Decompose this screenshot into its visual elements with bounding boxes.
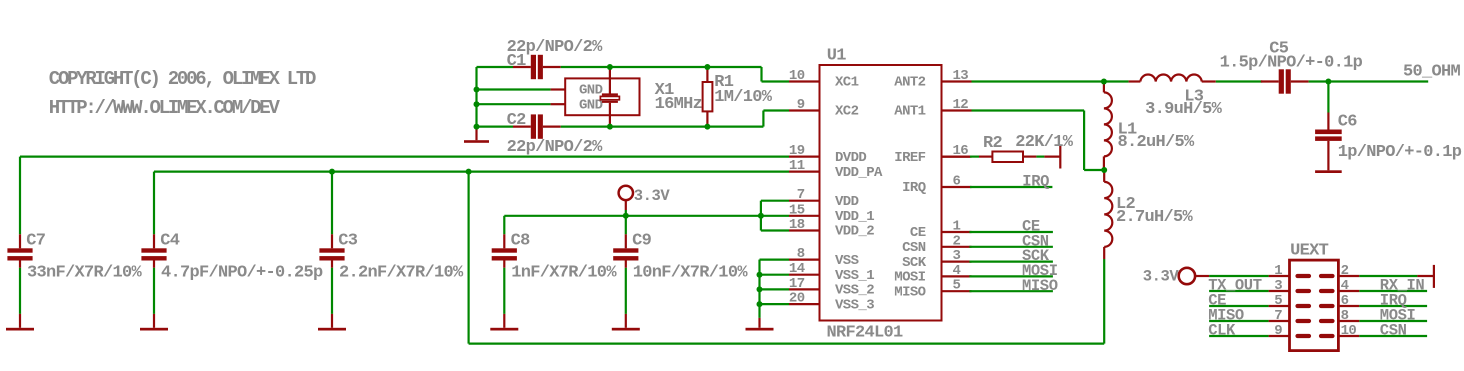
svg-text:VSS_2: VSS_2 <box>835 283 874 299</box>
svg-text:C4: C4 <box>160 232 180 251</box>
junction R1 bottom <box>704 124 710 130</box>
wire bus to VDD pin 7 <box>760 201 762 216</box>
junction C6 node <box>1325 79 1331 85</box>
crystal X1 case box <box>565 78 639 115</box>
terminal stub at UEXT pin 2 <box>1433 265 1435 288</box>
ground under VSS <box>758 318 760 328</box>
pin 19 DVDD stub <box>789 156 820 158</box>
svg-text:1M/10%: 1M/10% <box>714 88 773 107</box>
wire bus to VDD_2 pin 18 <box>760 216 762 231</box>
wire R1 bottom to corner <box>707 125 763 127</box>
wire C1 row left <box>477 66 514 68</box>
pin 4 stub <box>1338 290 1359 292</box>
svg-text:XC1: XC1 <box>835 75 859 91</box>
wire pin 2 to gnd stub <box>1359 275 1417 277</box>
svg-text:8.2uH/5%: 8.2uH/5% <box>1118 133 1196 152</box>
junction R1 top <box>704 64 710 70</box>
crystal X1 element <box>609 67 611 94</box>
svg-text:3: 3 <box>1274 278 1282 294</box>
svg-text:2.7uH/5%: 2.7uH/5% <box>1116 208 1194 227</box>
pin 2 stub <box>1338 275 1359 277</box>
wire CSN net <box>1359 335 1427 337</box>
pin 18 VDD_2 stub <box>789 229 820 231</box>
wire crystal case gnd row 1 <box>477 88 551 90</box>
svg-text:16MHz: 16MHz <box>655 95 703 114</box>
resistor R1 <box>706 67 708 82</box>
wire ANT1 down <box>1083 111 1085 171</box>
svg-text:C6: C6 <box>1338 112 1358 131</box>
svg-text:C2: C2 <box>507 111 527 130</box>
wire VDD_PA feed bottom bus <box>469 343 1105 345</box>
junction VSS_1 <box>757 272 763 278</box>
pin 13 ANT2 stub <box>942 80 972 82</box>
wire ANT2 to L1 node <box>972 80 1104 82</box>
wire CE net <box>1209 305 1269 307</box>
pin 9 XC2 stub <box>789 109 820 111</box>
ground under C3 <box>331 314 333 328</box>
wire DVDD rail <box>20 156 789 158</box>
pin 7 stub <box>1269 320 1290 322</box>
wire R1 top to corner <box>707 66 761 68</box>
wire to 50_OHM <box>1328 80 1428 82</box>
svg-text:HTTP://WWW.OLIMEX.COM/DEV: HTTP://WWW.OLIMEX.COM/DEV <box>49 97 281 119</box>
svg-text:19: 19 <box>789 143 805 159</box>
wire MOSI net <box>1359 320 1427 322</box>
wire corner down to XC1 row <box>760 67 762 82</box>
svg-text:20: 20 <box>789 291 805 307</box>
pin 20 VSS_3 stub <box>789 303 820 305</box>
wire CE net <box>969 231 1053 233</box>
junction VSS_2 <box>757 286 763 292</box>
svg-text:3.9uH/5%: 3.9uH/5% <box>1145 100 1223 119</box>
junction crystal bottom node <box>607 124 613 130</box>
svg-text:C3: C3 <box>338 232 358 251</box>
ground under C6 <box>1327 141 1329 170</box>
svg-text:1: 1 <box>953 219 961 235</box>
svg-text:MISO: MISO <box>1022 277 1058 295</box>
svg-text:CSN: CSN <box>902 240 926 256</box>
inductor L1 <box>1103 82 1105 93</box>
svg-text:2.2nF/X7R/10%: 2.2nF/X7R/10% <box>339 263 464 282</box>
capacitor C8 body <box>503 234 505 248</box>
wire CLK net <box>1209 335 1269 337</box>
svg-text:3.3V: 3.3V <box>634 187 671 205</box>
wire C2 row left <box>477 125 514 127</box>
svg-text:8: 8 <box>797 246 805 262</box>
svg-text:3: 3 <box>953 248 961 264</box>
capacitor C1 <box>513 66 531 68</box>
junction gnd row 1 <box>474 87 480 93</box>
wire VSS_2 pin 17 <box>760 288 790 290</box>
wire crystal bottom to R1 bottom <box>610 125 708 127</box>
svg-text:10: 10 <box>1341 323 1357 339</box>
svg-text:CE: CE <box>910 225 926 241</box>
pin 4 MOSI stub <box>942 275 972 277</box>
pin 8 VSS stub <box>789 259 820 261</box>
wire 3.3V to bus <box>625 210 627 216</box>
svg-text:11: 11 <box>789 158 805 174</box>
wire VDD_PA rail drop to C4 <box>153 172 155 235</box>
ground under C4 <box>153 314 155 328</box>
wire C9 bottom <box>625 268 627 314</box>
pin 16 IREF stub <box>942 156 972 158</box>
terminal stub right of R2 <box>1059 146 1061 169</box>
wire VDD bus <box>504 215 761 217</box>
pin 2 CSN stub <box>942 246 972 248</box>
connector UEXT pin 9 bar <box>1298 334 1310 338</box>
svg-text:5: 5 <box>1274 293 1282 309</box>
svg-text:4: 4 <box>953 263 961 279</box>
svg-text:18: 18 <box>789 217 805 233</box>
svg-text:MOSI: MOSI <box>894 270 925 286</box>
svg-text:R2: R2 <box>983 134 1003 153</box>
wire C9 drop <box>625 216 627 235</box>
pin 5 MISO stub <box>942 290 972 292</box>
svg-text:50_OHM: 50_OHM <box>1403 63 1461 82</box>
wire C1 to crystal top <box>561 66 610 68</box>
crystal X1 gnd pin 2 stub <box>551 103 566 105</box>
pin 3 SCK stub <box>942 261 972 263</box>
wire 3.3V to pin 1 <box>1195 275 1209 277</box>
pin 10 XC1 stub <box>789 80 820 82</box>
svg-text:UEXT: UEXT <box>1290 242 1329 261</box>
wire VDD_PA feed down <box>468 172 470 344</box>
wire C3 drop <box>331 172 333 235</box>
junction L1 L2 node <box>1101 167 1107 173</box>
junction VDD bus at pin VDD_1 <box>758 213 764 219</box>
wire SCK net <box>969 261 1053 263</box>
svg-text:VDD_2: VDD_2 <box>835 224 874 240</box>
wire L3 to C5 <box>1216 80 1262 82</box>
svg-text:GND: GND <box>579 97 603 113</box>
svg-text:CSN: CSN <box>1380 322 1407 340</box>
wire bus to VDD_1 pin 15 <box>761 215 789 217</box>
wire ANT1 east <box>972 109 1085 111</box>
pin 3 stub <box>1269 290 1290 292</box>
ground symbol left of C2 <box>475 127 477 141</box>
wire C6 top <box>1327 82 1329 113</box>
junction C2 left / ground tap <box>474 124 480 130</box>
pin 7 VDD stub <box>789 200 820 202</box>
svg-text:7: 7 <box>1274 308 1282 324</box>
connector UEXT pin 10 bar <box>1321 334 1333 338</box>
wire C2 to crystal bottom <box>561 125 610 127</box>
capacitor C7 body <box>19 234 21 248</box>
svg-text:1.5p/NPO/+-0.1p: 1.5p/NPO/+-0.1p <box>1220 54 1363 73</box>
svg-text:9: 9 <box>797 97 805 113</box>
wire crystal top to R1 top <box>610 66 708 68</box>
wire gnd vertical left of crystal <box>475 67 477 127</box>
pin 6 stub <box>1338 305 1359 307</box>
capacitor C6 <box>1327 113 1329 130</box>
pin 6 IRQ stub <box>942 186 972 188</box>
svg-text:ANT2: ANT2 <box>894 75 925 91</box>
svg-text:6: 6 <box>953 174 961 190</box>
inductor L2 <box>1103 170 1105 182</box>
wire C4 bottom <box>153 268 155 314</box>
svg-text:IRQ: IRQ <box>1022 173 1049 191</box>
capacitor C2 <box>513 125 531 127</box>
ground under C7 <box>19 314 21 328</box>
wire ANT2 node to L3 <box>1104 80 1129 82</box>
supply 3.3V at UEXT <box>1179 268 1195 284</box>
wire VSS_1 pin 14 <box>760 274 790 276</box>
svg-text:IRQ: IRQ <box>902 180 926 196</box>
inductor L3 <box>1129 80 1141 82</box>
svg-text:VDD: VDD <box>835 194 859 210</box>
pin 1 stub <box>1269 275 1290 277</box>
junction crystal top node <box>607 64 613 70</box>
svg-text:10nF/X7R/10%: 10nF/X7R/10% <box>633 263 749 282</box>
svg-text:5: 5 <box>953 278 961 294</box>
wire IRQ net <box>1359 305 1427 307</box>
wire TX_OUT net <box>1209 290 1269 292</box>
wire to XC1 pin <box>762 80 790 82</box>
supply 3.3V above C9 <box>619 186 633 200</box>
svg-text:CLK: CLK <box>1208 322 1236 340</box>
capacitor C9 body <box>625 234 627 248</box>
wire DVDD rail drop to C7 <box>19 157 21 235</box>
pin 14 VSS_1 stub <box>789 274 820 276</box>
junction VSS_3 <box>757 301 763 307</box>
wire MOSI net <box>969 275 1053 277</box>
svg-text:U1: U1 <box>827 47 847 66</box>
svg-text:2: 2 <box>953 233 961 249</box>
connector UEXT pin 4 bar <box>1321 289 1333 293</box>
capacitor C5 <box>1261 80 1279 82</box>
svg-text:8: 8 <box>1341 308 1349 324</box>
junction ANT2 L1 <box>1101 79 1107 85</box>
connector UEXT pin 1 bar <box>1298 274 1310 278</box>
svg-text:VSS_3: VSS_3 <box>835 297 874 313</box>
svg-text:XC2: XC2 <box>835 104 859 120</box>
svg-text:10: 10 <box>789 68 805 84</box>
pin 12 ANT1 stub <box>942 109 972 111</box>
svg-text:3.3V: 3.3V <box>1143 268 1180 286</box>
connector UEXT pin 8 bar <box>1321 319 1333 323</box>
svg-text:4.7pF/NPO/+-0.25p: 4.7pF/NPO/+-0.25p <box>161 263 323 282</box>
crystal X1 gnd pin 1 stub <box>551 88 566 90</box>
connector UEXT body <box>1290 260 1339 351</box>
junction gnd row 2 <box>474 101 480 107</box>
wire VSS vertical <box>758 260 760 318</box>
svg-text:17: 17 <box>789 276 805 292</box>
wire crystal case gnd row 2 <box>477 103 551 105</box>
wire C3 bottom <box>331 268 333 314</box>
ground under C9 <box>625 314 627 328</box>
wire IRQ net <box>970 186 1052 188</box>
wire C8 bottom <box>503 268 505 314</box>
svg-text:ANT1: ANT1 <box>894 104 925 120</box>
svg-text:VSS_1: VSS_1 <box>835 268 874 284</box>
pin 15 VDD_1 stub <box>789 215 820 217</box>
connector UEXT pin 6 bar <box>1321 304 1333 308</box>
resistor R2 <box>942 156 971 158</box>
svg-text:VDD_1: VDD_1 <box>835 209 874 225</box>
connector UEXT pin 3 bar <box>1298 289 1310 293</box>
svg-text:C8: C8 <box>511 232 531 251</box>
svg-text:33nF/X7R/10%: 33nF/X7R/10% <box>27 263 143 282</box>
svg-text:NRF24L01: NRF24L01 <box>827 324 904 343</box>
wire RX_IN net <box>1359 290 1427 292</box>
wire C7 bottom <box>19 268 21 314</box>
svg-text:C9: C9 <box>632 232 652 251</box>
ground under C8 <box>503 314 505 328</box>
svg-text:1: 1 <box>1274 263 1282 279</box>
wire VSS pin 8 <box>760 259 790 261</box>
svg-text:15: 15 <box>789 202 805 218</box>
svg-text:C7: C7 <box>26 232 46 251</box>
svg-text:9: 9 <box>1274 323 1282 339</box>
svg-text:SCK: SCK <box>902 255 927 271</box>
junction VDD_PA to antenna feed <box>466 169 472 175</box>
wire VDD_PA rail <box>154 171 789 173</box>
svg-text:MISO: MISO <box>894 284 925 300</box>
connector UEXT pin 2 bar <box>1321 274 1333 278</box>
svg-text:14: 14 <box>789 261 805 277</box>
pin 8 stub <box>1338 320 1359 322</box>
svg-text:13: 13 <box>953 68 969 84</box>
svg-text:7: 7 <box>797 187 805 203</box>
pin 10 stub <box>1338 335 1359 337</box>
pin 17 VSS_2 stub <box>789 288 820 290</box>
capacitor C4 body <box>153 234 155 248</box>
svg-text:22p/NPO/2%: 22p/NPO/2% <box>507 138 604 157</box>
svg-text:4: 4 <box>1341 278 1349 294</box>
wire CSN net <box>969 246 1053 248</box>
svg-text:GND: GND <box>579 83 603 99</box>
junction C3 on VDD_PA rail <box>329 169 335 175</box>
svg-text:1nF/X7R/10%: 1nF/X7R/10% <box>511 263 617 282</box>
pin 5 stub <box>1269 305 1290 307</box>
pin 11 VDD_PA stub <box>789 171 820 173</box>
svg-text:VSS: VSS <box>835 253 859 269</box>
wire VSS_3 pin 20 <box>760 303 790 305</box>
connector UEXT pin 5 bar <box>1298 304 1310 308</box>
wire MISO net <box>969 290 1053 292</box>
svg-text:VDD_PA: VDD_PA <box>835 165 883 181</box>
svg-text:1p/NPO/+-0.1p: 1p/NPO/+-0.1p <box>1338 143 1462 162</box>
svg-text:COPYRIGHT(C) 2006, OLIMEX LTD: COPYRIGHT(C) 2006, OLIMEX LTD <box>49 68 316 90</box>
capacitor C3 body <box>331 234 333 248</box>
svg-text:22p/NPO/2%: 22p/NPO/2% <box>507 38 604 57</box>
wire MISO net <box>1209 320 1269 322</box>
wire bottom bus up to L2 <box>1103 259 1105 344</box>
wire to XC2 pin <box>763 109 789 111</box>
svg-text:12: 12 <box>953 97 969 113</box>
wire corner up to XC2 row <box>762 111 764 127</box>
IC U1 NRF24L01 body <box>820 65 942 321</box>
svg-text:IREF: IREF <box>894 150 925 166</box>
wire C8 drop <box>503 216 505 235</box>
junction C9 3.3V on bus <box>623 213 629 219</box>
svg-text:6: 6 <box>1341 293 1349 309</box>
pin 1 CE stub <box>942 231 972 233</box>
wire C5 to C6 node <box>1309 80 1329 82</box>
svg-text:2: 2 <box>1341 263 1349 279</box>
connector UEXT pin 7 bar <box>1298 319 1310 323</box>
svg-text:22K/1%: 22K/1% <box>1015 133 1074 152</box>
svg-text:DVDD: DVDD <box>835 150 866 166</box>
pin 9 stub <box>1269 335 1290 337</box>
wire ANT1 to L1/L2 node <box>1084 169 1104 171</box>
